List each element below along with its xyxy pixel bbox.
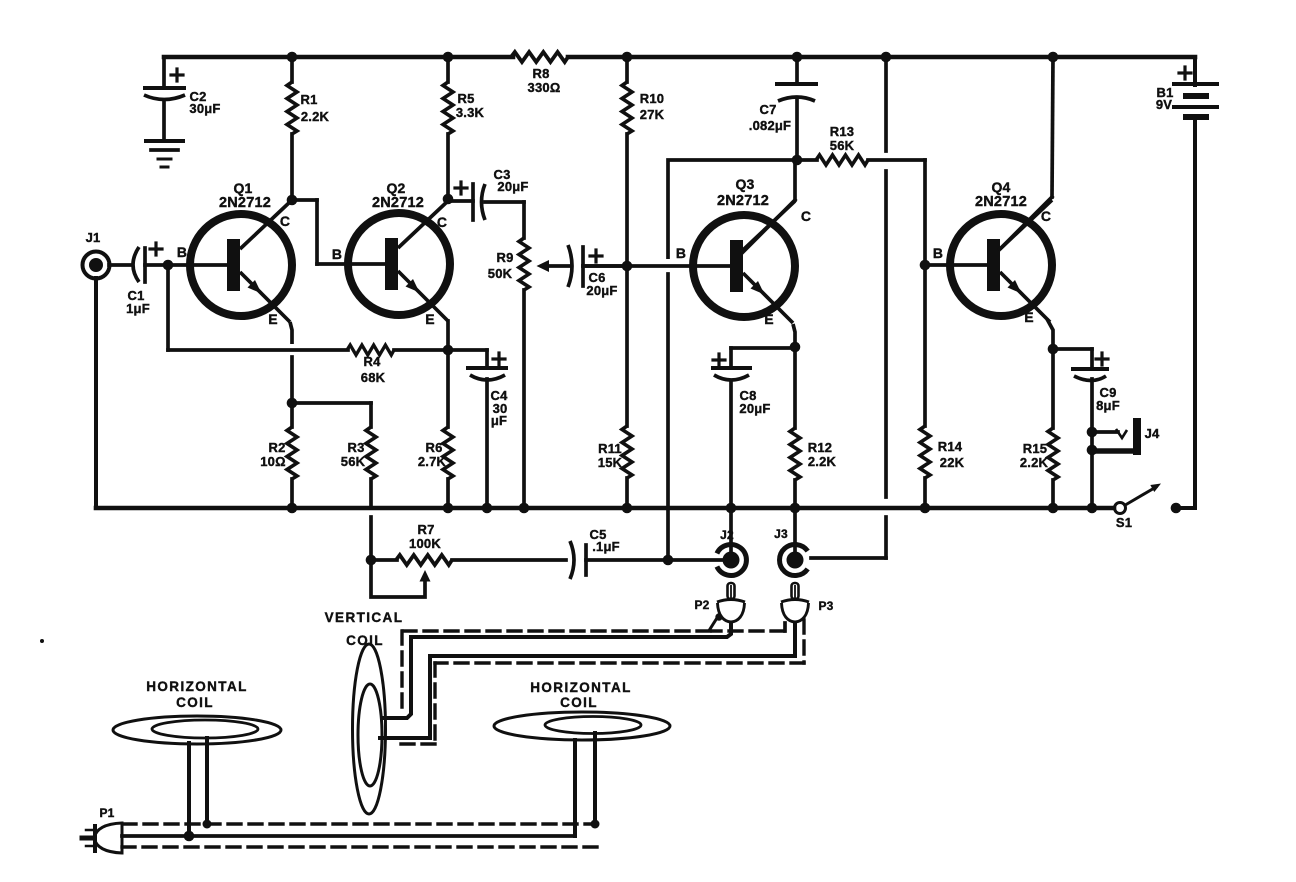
svg-text:2.2K: 2.2K xyxy=(301,109,330,124)
svg-text:Q3: Q3 xyxy=(735,176,754,192)
svg-text:HORIZONTAL: HORIZONTAL xyxy=(530,680,632,695)
svg-text:R1: R1 xyxy=(300,92,317,107)
svg-text:C: C xyxy=(801,208,811,224)
svg-text:56K: 56K xyxy=(830,138,855,153)
svg-text:C: C xyxy=(280,213,290,229)
svg-text:2N2712: 2N2712 xyxy=(975,194,1027,210)
svg-text:R3: R3 xyxy=(347,440,364,455)
svg-text:2.2K: 2.2K xyxy=(1020,455,1049,470)
svg-text:27K: 27K xyxy=(640,107,665,122)
svg-text:.082μF: .082μF xyxy=(749,118,791,133)
svg-text:1μF: 1μF xyxy=(126,301,150,316)
svg-text:2N2712: 2N2712 xyxy=(717,193,769,209)
svg-text:COIL: COIL xyxy=(176,695,214,710)
svg-text:8μF: 8μF xyxy=(1096,398,1120,413)
svg-text:E: E xyxy=(425,311,435,327)
svg-text:B: B xyxy=(676,245,686,261)
svg-text:2N2712: 2N2712 xyxy=(219,195,271,211)
svg-text:C: C xyxy=(1041,208,1051,224)
svg-text:R4: R4 xyxy=(363,354,381,369)
svg-text:HORIZONTAL: HORIZONTAL xyxy=(146,679,248,694)
svg-text:.1μF: .1μF xyxy=(592,539,620,554)
svg-text:2N2712: 2N2712 xyxy=(372,195,424,211)
svg-text:C: C xyxy=(437,214,447,230)
svg-text:20μF: 20μF xyxy=(586,283,617,298)
svg-text:10Ω: 10Ω xyxy=(260,454,285,469)
svg-text:R9: R9 xyxy=(496,250,513,265)
svg-text:R5: R5 xyxy=(457,91,474,106)
svg-text:Q1: Q1 xyxy=(233,180,252,196)
svg-text:B: B xyxy=(332,246,342,262)
svg-text:22K: 22K xyxy=(940,455,965,470)
svg-text:2.7K: 2.7K xyxy=(418,454,447,469)
svg-text:B: B xyxy=(177,244,187,260)
svg-text:E: E xyxy=(1024,309,1034,325)
svg-text:30μF: 30μF xyxy=(189,101,220,116)
svg-text:P3: P3 xyxy=(818,599,833,613)
svg-text:P1: P1 xyxy=(99,806,114,820)
svg-text:3.3K: 3.3K xyxy=(456,105,485,120)
svg-text:E: E xyxy=(764,311,774,327)
svg-text:R15: R15 xyxy=(1023,441,1047,456)
svg-text:COIL: COIL xyxy=(346,633,384,648)
svg-text:100K: 100K xyxy=(409,536,441,551)
svg-text:56K: 56K xyxy=(341,454,366,469)
svg-text:J3: J3 xyxy=(774,527,788,541)
svg-text:E: E xyxy=(268,311,278,327)
svg-text:R13: R13 xyxy=(830,124,854,139)
svg-text:COIL: COIL xyxy=(560,695,598,710)
svg-text:15K: 15K xyxy=(598,455,623,470)
svg-text:R6: R6 xyxy=(425,440,442,455)
svg-text:50K: 50K xyxy=(488,266,513,281)
svg-text:VERTICAL: VERTICAL xyxy=(325,610,404,625)
svg-text:9V: 9V xyxy=(1156,97,1172,112)
svg-text:20μF: 20μF xyxy=(497,179,528,194)
svg-text:Q4: Q4 xyxy=(991,179,1010,195)
svg-text:Q2: Q2 xyxy=(386,180,405,196)
svg-text:330Ω: 330Ω xyxy=(528,80,561,95)
svg-text:68K: 68K xyxy=(361,370,386,385)
svg-text:R11: R11 xyxy=(598,441,622,456)
svg-text:μF: μF xyxy=(491,413,507,428)
svg-text:20μF: 20μF xyxy=(739,401,770,416)
svg-text:P2: P2 xyxy=(694,598,709,612)
svg-text:R7: R7 xyxy=(417,522,434,537)
svg-text:R8: R8 xyxy=(532,66,549,81)
svg-text:R14: R14 xyxy=(938,439,963,454)
svg-text:C7: C7 xyxy=(759,102,776,117)
svg-text:J4: J4 xyxy=(1145,426,1160,441)
svg-text:S1: S1 xyxy=(1116,515,1132,530)
svg-text:B: B xyxy=(933,245,943,261)
svg-text:R10: R10 xyxy=(640,91,664,106)
svg-text:R2: R2 xyxy=(268,440,285,455)
svg-text:J2: J2 xyxy=(720,528,734,542)
svg-text:J1: J1 xyxy=(86,230,101,245)
svg-text:2.2K: 2.2K xyxy=(808,454,837,469)
svg-text:R12: R12 xyxy=(808,440,832,455)
